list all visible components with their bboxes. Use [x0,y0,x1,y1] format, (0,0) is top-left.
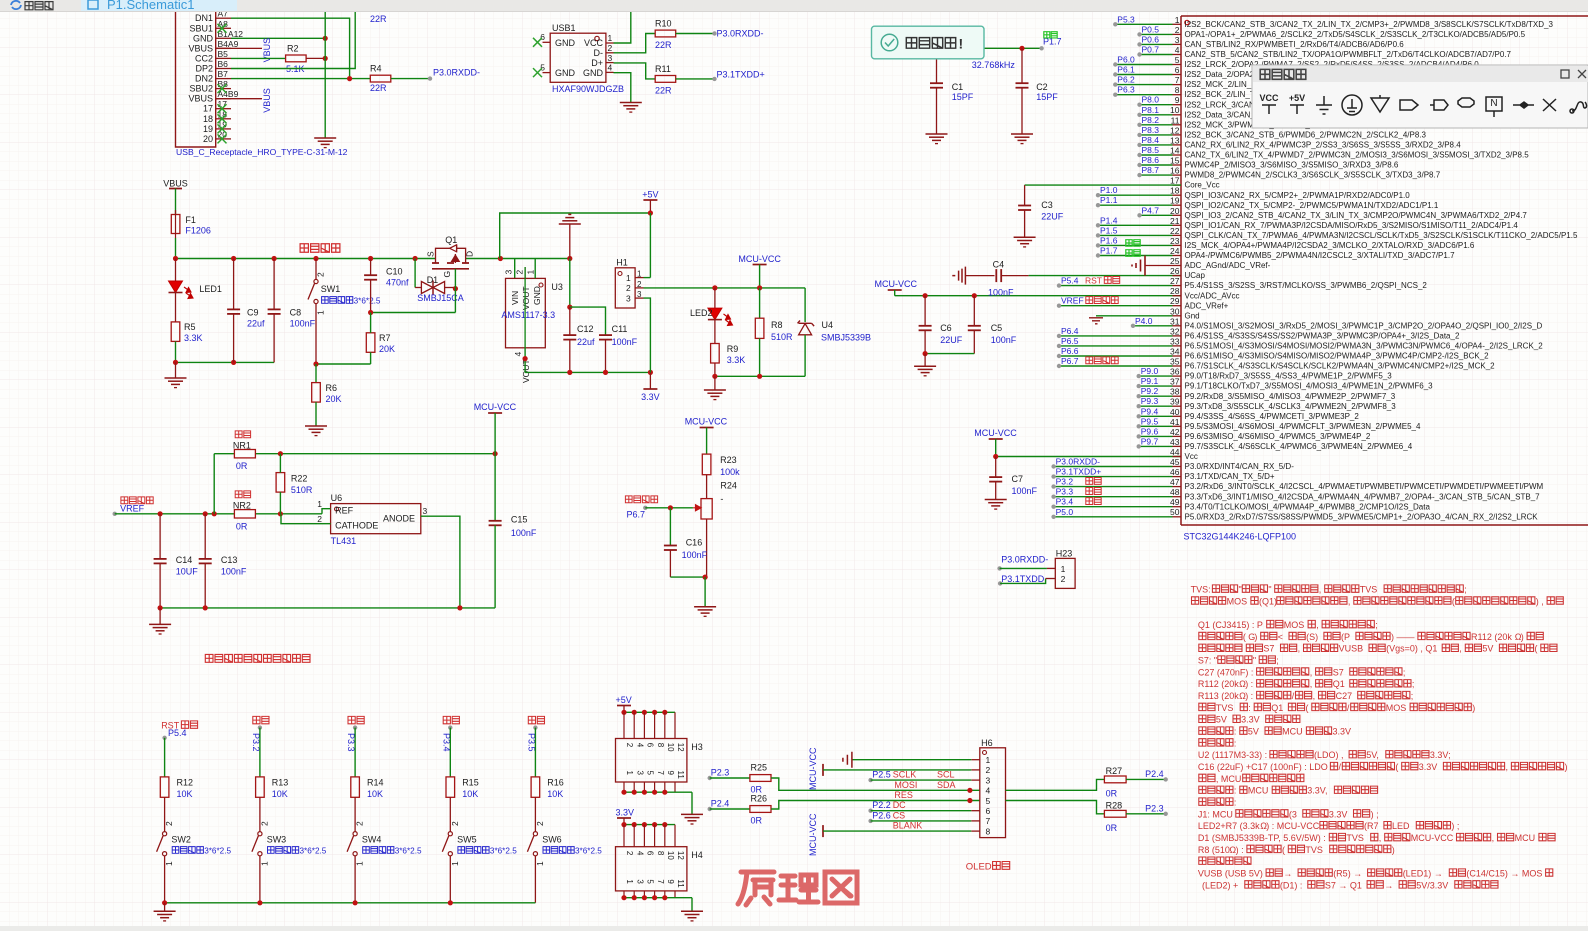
wire MCU pin40 P9.4 [1137,406,1173,418]
svg-text:(: ( [1535,644,1538,654]
svg-text:3: 3 [626,293,631,303]
junction C5 [972,293,977,298]
svg-text:(S): (S) [1306,632,1318,642]
junction bus anode [457,605,462,610]
svg-text:AMS1117-3.3: AMS1117-3.3 [501,310,555,320]
wire R25 to H6 pin4 [771,778,980,790]
junction VREF row [158,511,163,516]
svg-text:3*6*2.5: 3*6*2.5 [300,847,327,856]
svg-text:): ) [1521,632,1524,642]
svg-text:LED1: LED1 [199,284,222,294]
svg-text:OPA1-/OPA1+_2/PWMA6_2/SCLK2_2/: OPA1-/OPA1+_2/PWMA6_2/SCLK2_2/TxD5/S4SCL… [1185,30,1526,39]
ground LED2 block [704,376,726,399]
svg-text:P8.0: P8.0 [1142,95,1160,105]
wire H6 pin4 to R27 [1006,779,1105,790]
wire CC2 to R2 [231,57,286,59]
wire MCU pin13 P8.4 [1137,135,1172,147]
svg-text:P9.3/TxD8_3/S5SCLK_4/SCLK3_4/P: P9.3/TxD8_3/S5SCLK_4/SCLK3_4/PWME2N_2/PW… [1185,402,1397,411]
svg-text:R5: R5 [184,322,196,332]
svg-text:BLANK: BLANK [893,821,923,831]
junction crystal right [1019,46,1024,51]
svg-text:LED2+R7 (3.3k: LED2+R7 (3.3k [1198,821,1260,831]
resistor R22 [276,454,313,514]
node P2.2 DC [868,800,906,813]
svg-text:P9.7/S3SCLK_4/S6SCLK_4/PWMC6_3: P9.7/S3SCLK_4/S6SCLK_4/PWMC6_3/PWME4N_2/… [1185,442,1413,451]
svg-text:VBUS: VBUS [188,43,213,53]
svg-text:(D1) :: (D1) : [1280,880,1303,890]
svg-text:3.3V;: 3.3V; [1430,750,1451,760]
svg-text:15: 15 [1170,156,1180,166]
svg-text:6: 6 [986,806,991,816]
wire MCU pin50 P5.0 [1051,507,1172,519]
svg-text:1: 1 [637,270,642,279]
svg-text:2: 2 [450,821,460,826]
capacitor C6 [919,296,963,354]
connector H6 [971,738,1005,838]
svg-text:P5.3: P5.3 [1117,14,1135,24]
svg-text:;: ; [1276,656,1279,666]
svg-text:SDA: SDA [937,780,956,790]
svg-text:C14: C14 [176,555,193,565]
svg-text:4: 4 [635,851,644,856]
resistor R7 [366,313,395,365]
svg-text:C2: C2 [1036,82,1048,92]
power flag MCU-VCC R23 [685,417,728,455]
svg-text:) ;: ) ; [1451,821,1459,831]
junction H3 top [632,710,637,715]
svg-text:40: 40 [1170,407,1180,417]
junction button bus [353,900,358,905]
wire MCU pin41 P9.5 [1137,416,1173,428]
wire R27 to P2.4 [1126,778,1166,780]
svg-text:P8.6: P8.6 [1142,155,1160,165]
svg-text:P3.0RXDD-: P3.0RXDD- [433,68,480,78]
svg-text:,: , [1319,585,1322,595]
junction C6 [923,293,928,298]
svg-text:P6.1: P6.1 [1117,65,1135,75]
svg-text:11: 11 [1171,115,1180,125]
svg-text:P2.4: P2.4 [711,799,730,809]
node P6.7 [627,506,648,520]
svg-text:18: 18 [1170,186,1180,196]
svg-text:MCU-VCC: MCU-VCC [974,428,1017,438]
svg-text:,: , [1310,679,1313,689]
svg-text:34: 34 [1170,347,1180,357]
wire R10 to P3.0RXDD- [676,33,715,35]
svg-text:I2S2_BCK/CAN2_STB_3/CAN2_TX_2/: I2S2_BCK/CAN2_STB_3/CAN2_TX_2/LIN_TX_2/C… [1185,20,1554,29]
node P2.5 SCLK [868,770,954,783]
svg-text:H1: H1 [616,258,628,268]
node P3.1TXDD+ [712,70,764,82]
svg-text:I2S2_BCK_3/CAN2_STB_6/PWMD6_2/: I2S2_BCK_3/CAN2_STB_6/PWMD6_2/PWMC2N_2/S… [1185,131,1427,140]
junction rail [368,256,373,261]
svg-text:1: 1 [535,861,545,866]
svg-text:2: 2 [986,765,991,775]
svg-text:CAN2_TX_6/LIN2_TX_4/PWMD7_2/PW: CAN2_TX_6/LIN2_TX_4/PWMD7_2/PWMC3N_2/MOS… [1185,151,1530,160]
svg-text:GND: GND [532,286,542,305]
capacitor C13 [199,514,247,608]
svg-text:P3.1TXDD+: P3.1TXDD+ [717,70,765,80]
svg-text:LED2: LED2 [690,308,713,318]
svg-text:J1: MCU: J1: MCU [1198,809,1233,819]
wire MCU pin32 P6.4 [1057,326,1173,338]
svg-text:,: , [1492,833,1495,843]
wire H4 bottom bus [624,891,692,898]
svg-text:17: 17 [1170,176,1180,186]
wire MCU pin35 P6.7 [1057,356,1173,368]
svg-text:;: ; [1464,585,1467,595]
svg-text:100nF: 100nF [290,319,316,329]
svg-text:2: 2 [625,851,634,856]
svg-text:GND: GND [555,68,576,78]
junction H6 pin5 [967,798,972,803]
wire R11 to P3.1TXDD+ [676,78,715,80]
svg-text:100nF: 100nF [1012,486,1038,496]
svg-text:41: 41 [1170,417,1180,427]
junction GND [323,36,328,41]
junction bus C13 [203,605,208,610]
svg-text:C9: C9 [247,308,259,318]
svg-text:33: 33 [1170,336,1180,346]
capacitor C3 [1018,185,1064,237]
bottom scrollbar [0,926,1588,931]
svg-text:P6.3: P6.3 [1117,85,1135,95]
resistor R28 [1104,800,1126,833]
wire C4 to MCU pin26 [1029,275,1181,277]
svg-text:P3.0RXDD-: P3.0RXDD- [1056,457,1101,467]
svg-text:MCU-VCC: MCU-VCC [875,279,918,289]
svg-text:TVS:: TVS: [1191,585,1211,595]
svg-text:QSPI_IO2/CAN2_TX_5/CMP2-_2/PWM: QSPI_IO2/CAN2_TX_5/CMP2-_2/PWMC5/PWMA1N/… [1185,201,1439,210]
ground buttons [154,903,176,921]
net flag VBUS (A4B9) [216,98,262,100]
svg-text:PWMD8_2/PWMC4N_2/SCLK3_3/S6SCL: PWMD8_2/PWMC4N_2/SCLK3_3/S6SCLK_3/S5SCLK… [1185,171,1441,180]
svg-text:CATHODE: CATHODE [335,521,378,531]
svg-text:100nF: 100nF [991,335,1017,345]
svg-text:22R: 22R [655,40,672,50]
svg-text:P9.1/T18CLKO/TxD7_3/S5MOSI_4/M: P9.1/T18CLKO/TxD7_3/S5MOSI_4/MOSI3_4/PWM… [1185,382,1434,391]
wire DN1 to DN2 net [231,18,350,78]
svg-text:8: 8 [986,826,991,836]
junction H4 top [632,822,637,827]
svg-text:;: ; [1412,679,1415,689]
wire GND row [231,37,325,39]
wire C10 bottom node [371,312,456,314]
svg-text:32.768kHz: 32.768kHz [972,60,1016,70]
IC U1 MCU body [1181,16,1588,525]
capacitor C9 [227,259,265,363]
svg-text:P6.7: P6.7 [627,510,646,520]
wire H4 pin drop [674,825,676,847]
svg-text:P8.4: P8.4 [1142,135,1160,145]
wire H4 pin drop [664,825,666,847]
svg-text:31: 31 [1170,316,1180,326]
toast saved-success [872,26,985,59]
svg-text:R112 (20k: R112 (20k [1471,632,1512,642]
svg-text:5: 5 [1175,55,1180,65]
svg-text:2: 2 [637,280,642,289]
resistor R6 [312,383,342,404]
junction H4 top [652,822,657,827]
svg-text:R26: R26 [751,794,768,804]
wire MCU pin36 P9.0 [1137,366,1173,378]
svg-text:!: ! [959,36,964,52]
junction C16 top [668,505,673,510]
wire USB1 GND pin4 down [614,73,631,103]
wire H3 pin drop [664,712,666,738]
svg-text:8: 8 [1175,85,1180,95]
svg-text:C16: C16 [686,538,703,548]
wire main rail left [176,258,436,260]
svg-text:B6: B6 [218,59,229,69]
svg-text:R12: R12 [177,778,194,788]
svg-text:B4A9: B4A9 [218,39,239,49]
node P2.3 left [708,768,730,781]
node P2.4 left [708,799,730,812]
svg-text:3: 3 [504,270,514,275]
svg-text:TL431: TL431 [331,536,357,546]
wire buttons bottom bus [165,902,536,904]
junction SW1 bottom [313,361,318,366]
wire +5V down to H1 pin1 [649,213,651,278]
svg-text:P2.6: P2.6 [872,810,891,820]
svg-text:": " [1268,585,1271,595]
svg-text:0R: 0R [1106,823,1118,833]
wire H3 pin drop [643,712,645,738]
junction H3 top [652,710,657,715]
svg-text:R7: R7 [379,333,391,343]
svg-text:,: , [1506,762,1509,772]
wire H3 bottom bus [624,782,692,792]
svg-text:D+: D+ [591,58,603,68]
ground below C6 [914,354,936,376]
svg-text:7: 7 [656,879,665,884]
wire to H23 pin2 [1000,579,1046,584]
junction H3 bottom [652,790,657,795]
svg-text:510R: 510R [291,485,313,495]
net flag VBUS main [163,179,188,215]
AGND bars at pin25 [1132,256,1173,276]
svg-text:15PF: 15PF [1036,92,1058,102]
svg-text:39: 39 [1170,397,1180,407]
svg-text:1: 1 [625,879,634,884]
svg-text:35: 35 [1170,357,1180,367]
wire MCU pin29 VREF [1057,296,1173,308]
wire MCU pin16 P8.7 [1137,165,1172,177]
svg-text:N: N [1490,98,1497,109]
junction rail [173,256,178,261]
power flag MCU-VCC mid [875,279,918,296]
junction R8 bottom [757,374,762,379]
svg-text:P0.7: P0.7 [1142,45,1160,55]
svg-text:+5V: +5V [1289,93,1305,103]
svg-text:P3.0RXDD-: P3.0RXDD- [717,29,764,39]
wire R6 to ground [315,402,317,426]
fuse F1 [171,210,211,238]
svg-text:CAN2_RX_6/LIN2_RX_4/PWMC3P_2/S: CAN2_RX_6/LIN2_RX_4/PWMC3P_2/SS3_3/S6SS_… [1185,141,1462,150]
svg-text:5: 5 [540,62,545,72]
connector USB-C receptacle body [176,9,244,147]
svg-text:P9.7: P9.7 [1141,436,1159,446]
svg-text:30: 30 [1170,306,1180,316]
wire +5V loop [500,213,651,259]
junction VREF row [278,511,283,516]
net tag crystal P1.6 [1126,240,1140,247]
wire NR1 row [214,453,495,455]
svg-text:,: , [1379,833,1382,843]
svg-text:20K: 20K [326,394,342,404]
wire VREF row [115,513,322,515]
svg-text:D1: D1 [427,275,439,285]
svg-text:37: 37 [1170,377,1180,387]
resistor R10 [655,19,676,51]
svg-text:2: 2 [626,283,631,293]
svg-text:470nf: 470nf [386,278,409,288]
wire USB1 VCC up [614,11,631,43]
diode D1 TVS [415,259,464,304]
svg-text:23: 23 [1170,236,1180,246]
annotation button label 4 [528,716,544,723]
power flag +5V H3 [616,695,632,712]
svg-text:QSPI_IO3/CAN2_RX_5/CMP2+_2/PWM: QSPI_IO3/CAN2_RX_5/CMP2+_2/PWMA1P/RXD2/A… [1185,191,1411,200]
junction VREF row [212,511,217,516]
wire USB1 D- to R10 [614,34,656,53]
wire MCU pin6 P6.1 [1113,65,1172,77]
svg-text:P2.3: P2.3 [711,768,730,778]
svg-text:22UF: 22UF [940,335,963,345]
svg-text:TVS: TVS [1305,845,1323,855]
net flag VBUS (B4A9) [216,47,262,49]
svg-text:GND: GND [193,33,214,43]
wire button top [449,728,451,777]
svg-text:(: ( [1395,762,1398,772]
svg-text:DC: DC [893,800,906,810]
wire H4 pin drop [623,825,625,847]
svg-text:VCC: VCC [1259,93,1279,103]
svg-text:P4.7: P4.7 [1142,205,1160,215]
svg-text:8: 8 [656,851,665,856]
svg-text:28: 28 [1170,286,1180,296]
svg-text:22uf: 22uf [247,319,265,329]
LED LED1 [169,259,222,322]
junction H3 bottom [632,790,637,795]
svg-text:38: 38 [1170,387,1180,397]
svg-text:15PF: 15PF [952,92,974,102]
svg-text:22UF: 22UF [1041,212,1064,222]
svg-text:SW4: SW4 [362,835,382,845]
power flag 3.3V [641,372,660,402]
svg-text:R112 (20k: R112 (20k [1198,679,1239,689]
wire H1 pin2 to MCU-VCC rail [644,287,806,289]
svg-text:VBUS: VBUS [262,88,272,113]
svg-text:HXAF90WJDGZB: HXAF90WJDGZB [552,84,624,94]
svg-text:;: ; [1375,620,1378,630]
junction H3 bottom [621,790,626,795]
svg-text:R8: R8 [771,320,783,330]
label switch value [268,847,299,854]
svg-text:Q1 (CJ3415) : P: Q1 (CJ3415) : P [1198,620,1263,630]
svg-text:22R: 22R [370,83,387,93]
wire VREF bottom bus [160,607,495,609]
wire MCU pin39 P9.3 [1137,396,1173,408]
svg-text:QSPI_IO3_2/CAN2_STB_4/CAN2_TX_: QSPI_IO3_2/CAN2_STB_4/CAN2_TX_3/LIN_TX_3… [1185,211,1528,220]
svg-text:TVS: TVS [1360,585,1378,595]
svg-text:19: 19 [203,124,213,134]
svg-text:P9.4: P9.4 [1141,406,1159,416]
svg-text:1: 1 [526,270,536,275]
svg-text:P3.3: P3.3 [1056,487,1074,497]
wire MCU pin49 P3.4 [1051,497,1172,509]
svg-text:": " [1239,585,1242,595]
svg-text:5V: 5V [1248,727,1259,737]
junction VREF row [203,511,208,516]
svg-text:<: < [1278,632,1283,642]
svg-text:1: 1 [316,310,326,315]
svg-text::: : [1234,727,1237,737]
wire MCU pin33 P6.5 [1057,336,1173,348]
svg-text:+5V: +5V [616,695,632,705]
svg-text:-: - [720,494,723,504]
svg-text:R9: R9 [727,344,739,354]
svg-text:STC32G144K246-LQFP100: STC32G144K246-LQFP100 [1184,532,1297,542]
junction caps bottom [923,351,928,356]
svg-text:C11: C11 [612,324,628,334]
resistor R26 [750,794,771,826]
svg-text:RST: RST [1085,276,1102,286]
junction rail [567,256,572,261]
junction U3 out [523,356,528,361]
svg-text:0R: 0R [236,461,248,471]
junction C7 top [993,454,998,459]
wire H6 pin5 to R28 [1006,801,1105,814]
toast text [906,36,963,52]
svg-text:100nF: 100nF [682,550,708,560]
wire H3 top bus [624,711,675,713]
svg-text:9: 9 [666,879,675,884]
no-connect X marks on USB-C pins [218,24,227,144]
svg-text:14: 14 [1170,146,1180,156]
svg-text::: : [1234,738,1237,748]
resistor R2 [286,44,307,75]
capacitor C1 [930,59,974,134]
wire MCU pin21 P1.4 [1096,215,1173,227]
ground below C2 [1011,133,1033,135]
wire MCU pin43 P9.7 [1137,436,1173,448]
svg-text:6: 6 [540,32,545,42]
svg-text:SW2: SW2 [171,835,191,845]
svg-text:,: , [1316,620,1319,630]
svg-text:Vcc/ADC_AVcc: Vcc/ADC_AVcc [1185,291,1240,300]
svg-text:P2.2: P2.2 [872,800,891,810]
svg-text:): ) [1565,762,1568,772]
svg-text:(R7: (R7 [1364,821,1379,831]
svg-text:C27 (470nF) :: C27 (470nF) : [1198,667,1254,677]
wire P6.7 to R24 [645,507,693,509]
svg-text:B7: B7 [218,69,229,79]
wire MCU pin15 P8.6 [1137,155,1172,167]
red suffix P6.7 detect [1086,357,1118,364]
junction DN2 [347,76,352,81]
wire MCU pin38 P9.2 [1137,386,1173,398]
wire MCU pin34 P6.6 [1057,346,1173,358]
svg-text:3: 3 [986,775,991,785]
svg-text:4: 4 [635,743,644,748]
connector H4 [616,847,703,891]
svg-text:P1.Schematic1: P1.Schematic1 [107,0,194,12]
wire bottom LED branch [176,361,275,363]
svg-text:1: 1 [986,755,991,765]
wire gate node down [454,289,456,313]
